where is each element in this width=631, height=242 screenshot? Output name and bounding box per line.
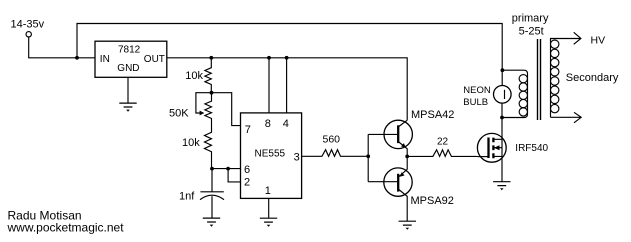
svg-text:primary: primary [512, 12, 549, 24]
svg-text:6: 6 [244, 164, 250, 176]
svg-text:10k: 10k [182, 137, 200, 149]
svg-text:5-25t: 5-25t [519, 25, 544, 37]
svg-text:IRF540: IRF540 [515, 143, 548, 154]
svg-text:7812: 7812 [118, 45, 141, 56]
svg-text:BULB: BULB [463, 97, 488, 108]
svg-text:50K: 50K [169, 108, 189, 120]
svg-text:2: 2 [244, 177, 250, 189]
svg-text:14-35v: 14-35v [11, 18, 45, 30]
svg-text:GND: GND [117, 63, 139, 74]
svg-text:www.pocketmagic.net: www.pocketmagic.net [7, 221, 125, 235]
svg-text:MPSA42: MPSA42 [411, 109, 454, 121]
svg-text:7: 7 [245, 124, 251, 136]
svg-text:3: 3 [294, 152, 300, 164]
svg-text:1: 1 [265, 185, 271, 197]
svg-text:HV: HV [591, 34, 606, 46]
svg-text:NEON: NEON [463, 85, 491, 96]
svg-text:4: 4 [283, 118, 289, 130]
svg-text:8: 8 [265, 118, 271, 130]
svg-text:IN: IN [100, 54, 110, 65]
svg-text:560: 560 [323, 134, 341, 146]
svg-text:1nf: 1nf [179, 191, 195, 203]
svg-text:OUT: OUT [144, 54, 165, 65]
svg-text:22: 22 [437, 137, 449, 148]
svg-text:MPSA92: MPSA92 [411, 195, 454, 207]
svg-text:10k: 10k [185, 70, 203, 82]
svg-text:Secondary: Secondary [566, 72, 619, 84]
svg-text:NE555: NE555 [255, 149, 286, 160]
